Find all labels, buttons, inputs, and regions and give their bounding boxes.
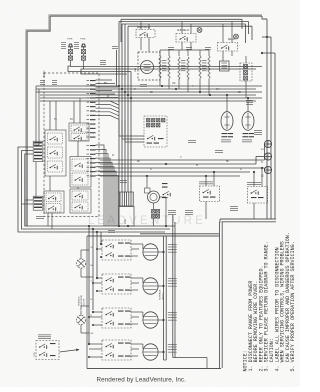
wire: top run 3 [122,23,246,25]
connector J1 pin strip (U1 right, lower) [87,145,96,177]
wire: burner row 1 hookup [0,0,173,258]
wire: top run drop left [118,22,120,43]
wire: burner feed rails [89,226,101,344]
switch SW13 infinite switch left rear [102,340,131,360]
wire: lamp hookups [81,250,93,333]
wire: feed L2 [68,66,131,72]
switch SW12 infinite switch left front [102,308,131,328]
wire: vertical harness bundle [119,42,131,226]
wire: U1 internal drops [50,98,80,191]
switch group SG-A (oven selector) [45,130,66,176]
wire: top run 1 [121,18,242,20]
wire: feed L1 [71,65,263,68]
wire: SW leads [206,168,262,219]
connector P1 power cord [61,39,73,67]
wire: feed N1 [84,66,257,69]
wire: feed N2 [81,69,127,74]
wire: right rail C (x275) [274,53,276,220]
connector J2 (x-marks) [240,63,252,81]
wire: TB1 feeds [100,144,264,176]
connector J1 pin strip (U1 right, upper) [87,80,96,138]
sensor S1 oven sensor [221,95,233,142]
sensor S2 oven sensor [242,98,254,142]
element SU4 surface unit left rear [143,344,158,360]
wire: right rail A (x267) [266,19,268,219]
wire: top-right border step [262,16,267,19]
wire: cover step down to notice rail [219,219,222,222]
module TOD clock (dashed) [34,341,59,360]
terminal block TB1 L1/N/L2 [261,140,272,177]
wire: lower section left edge stub [86,236,88,369]
switch group SG-C [70,157,91,188]
motor M2 latch motor [145,188,160,203]
element SU2 surface unit right front [143,278,158,294]
switch group SG-E (top) [69,123,89,141]
wire: burner row 3 hookup [0,0,173,326]
wire: feed to rail C [262,52,275,54]
connector J4B (U1 left lower) [33,196,43,210]
connector J4A (U1 left upper) [33,141,43,161]
module U1 electronic oven control (dashed enclosure) [44,73,99,217]
wire: K1 leads [182,22,191,51]
labels: burner feed wire colors [91,247,94,335]
relay K2 oven relay [218,34,239,51]
connector P2 power cord [74,39,86,67]
wire: element stems [160,50,209,95]
element E1 coil pair [159,56,170,78]
switch SW5 door switch [247,182,268,203]
switch SW6 interlock [162,183,170,198]
label SU2 [168,278,177,287]
labels: misc component designators [36,46,262,233]
junctions on main bus [118,85,249,99]
wire: left loop harness [18,147,175,232]
wire: J1 lower fan-out into harness [96,145,119,226]
labels: wire colors [54,83,242,171]
connector J3 pair [152,210,160,219]
wire: main box bottom edge (double) [220,218,276,220]
wire: bottom edge of lower section [87,368,221,370]
module A1 control module [119,207,134,227]
label: NOTICE block (rotated) [243,232,297,371]
relay K1 DLB [176,28,202,42]
label SU1 [168,244,177,253]
wire: module leads [147,176,166,226]
wire: feed to rail B [262,36,271,38]
wire: top run 2 [119,21,249,23]
switch SW2 door latch assembly (dashed) [144,116,167,147]
wire: notice-area left rail (double vertical) [219,222,221,368]
switch group SG-D [70,189,91,213]
wire: top run drop right [248,22,250,35]
wire: J1 upper fan-out [96,80,120,119]
switch SW4 latch switch [199,182,220,202]
relay K0 bake relay [136,22,155,53]
wire: J2 leads [245,56,247,63]
wire: neutral rails (right of burners) [164,215,208,369]
wire: burner row 2 hookup [0,0,173,292]
junctions lower bus [88,225,167,233]
junction on rail feed [266,36,268,38]
element E3 broil coil pair [199,56,210,78]
junctions on TB feed bus [146,163,263,177]
switch SW11 infinite switch right front [102,274,131,294]
wire: main cover outline (stepped top-left, top edge) [27,16,262,226]
wire: top run right drops [241,19,243,29]
motor FM1 convection fan [134,52,160,80]
wire: top run 4 [128,25,252,27]
wire: main distribution bus (6 runs) [36,86,262,101]
wire: lower bus runs [48,213,219,234]
switch SW10 infinite switch right rear [102,240,131,260]
element SU1 surface unit right rear [143,244,158,260]
wire: TOD arrow [60,350,80,353]
wire: bus drops to J4A [33,86,39,198]
wire: K2 leads [223,22,232,62]
lamp DS2 surface indicator [76,311,85,329]
element SU3 surface unit left front [143,312,158,328]
wire: right rail B (x271) [270,37,272,219]
wire: burner row 4 hookup [0,0,173,358]
wire: lower section top edge [87,235,220,237]
relay K3 contact box [220,61,230,71]
wire: harness elbows into SW2 [119,120,144,142]
lamp DS1 surface indicator [76,255,85,273]
element E2 coil pair [178,57,189,79]
switch group SG-B [44,191,64,213]
label TOD [38,335,51,340]
transformer T1 [119,192,134,206]
label SU4 [168,344,177,353]
label SU3 [168,312,177,321]
